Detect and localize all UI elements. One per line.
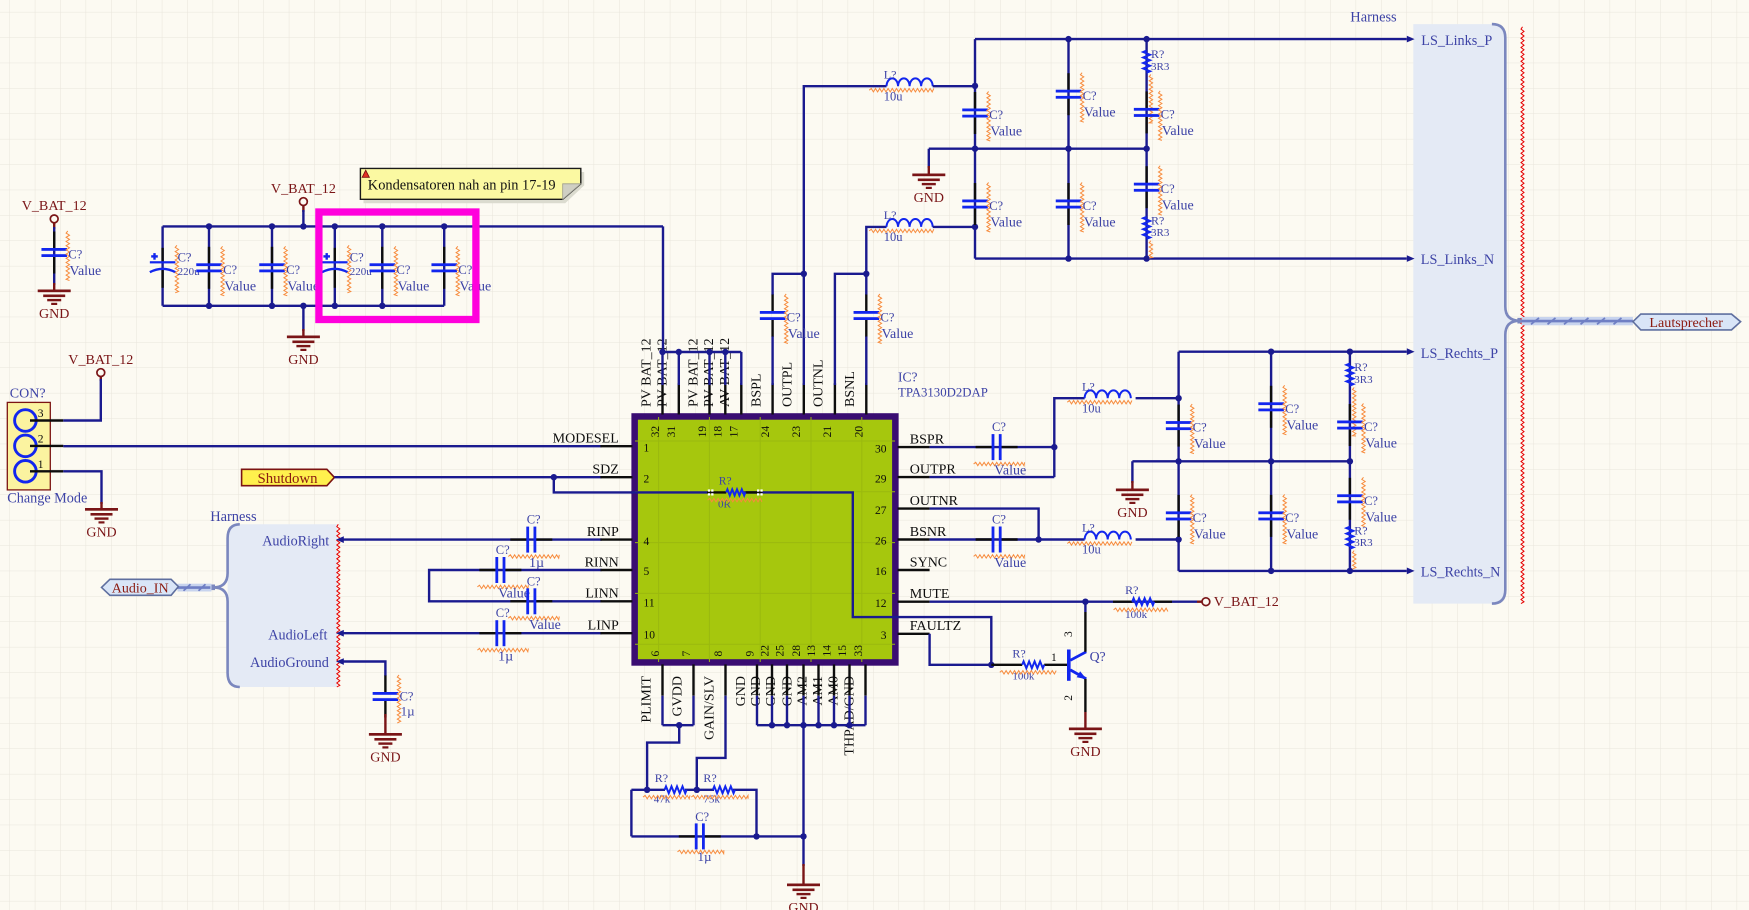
svg-text:LINN: LINN xyxy=(585,587,618,602)
svg-text:GND: GND xyxy=(734,676,749,706)
svg-text:SYNC: SYNC xyxy=(910,555,947,570)
label IC? xyxy=(898,369,918,384)
svg-text:GVDD: GVDD xyxy=(670,676,685,716)
svg-text:FAULTZ: FAULTZ xyxy=(910,619,961,634)
junction dots right filter xyxy=(1175,349,1353,575)
svg-text:L?: L? xyxy=(884,208,897,222)
svg-text:L?: L? xyxy=(1082,379,1095,393)
label C? Value (RF c1 top) xyxy=(1191,404,1226,454)
svg-text:GND: GND xyxy=(86,526,116,541)
wire L to filter (LN) xyxy=(933,226,975,228)
connector pin circle 3 xyxy=(15,410,37,432)
svg-text:1µ: 1µ xyxy=(498,650,513,665)
wire BSNL cap node xyxy=(866,227,886,385)
svg-text:15: 15 xyxy=(837,645,849,657)
svg-text:LS_Rechts_N: LS_Rechts_N xyxy=(1421,565,1501,581)
capacitor C? (LF c2 bot) xyxy=(1056,183,1082,225)
label Harness (right) xyxy=(1350,10,1397,26)
svg-text:C?: C? xyxy=(496,543,510,557)
pin line 3 xyxy=(30,419,63,421)
svg-text:7: 7 xyxy=(681,651,693,657)
label C? Value (BSPR) xyxy=(974,420,1027,479)
capacitor C? (LF c1 top) xyxy=(962,92,988,134)
label R? 3R3 (RF top) xyxy=(1353,360,1374,436)
label C? Value (top-left cap) xyxy=(66,231,101,281)
svg-text:BSPR: BSPR xyxy=(910,433,945,448)
junction dots top pin bus xyxy=(659,349,728,355)
svg-text:C?: C? xyxy=(1083,199,1097,213)
harness entry AudioLeft xyxy=(268,628,344,644)
capacitor C? 1u (RINP) xyxy=(510,527,552,553)
wire FAULTZ xyxy=(930,634,992,665)
svg-text:3: 3 xyxy=(38,408,44,420)
wire pin1 to GND xyxy=(63,471,101,504)
junction OUTPR node xyxy=(1051,444,1057,450)
wire LS_Links_P bus xyxy=(975,38,1407,40)
label R? 3R3 (RF bot) xyxy=(1353,523,1374,569)
inductor L? 10u (right channel P) xyxy=(1085,390,1131,398)
capacitor C? (LF c2 top) xyxy=(1056,73,1082,115)
svg-text:RINP: RINP xyxy=(587,525,619,540)
svg-text:C?: C? xyxy=(1161,107,1175,121)
wire GND stub (right filter) xyxy=(1131,481,1133,489)
IC top pin numbers xyxy=(650,426,866,438)
svg-text:GND: GND xyxy=(370,751,400,766)
svg-text:26: 26 xyxy=(875,536,887,548)
svg-text:V_BAT_12: V_BAT_12 xyxy=(271,181,336,197)
svg-text:22: 22 xyxy=(759,645,771,657)
label R? 0R xyxy=(708,476,762,511)
label R? 3R3 (LF top) xyxy=(1149,47,1170,123)
pin number 3 xyxy=(38,408,44,420)
svg-text:C?: C? xyxy=(68,248,82,262)
svg-text:C?: C? xyxy=(397,263,411,277)
capacitor C? (BSPL bootstrap) xyxy=(760,295,786,337)
svg-text:Change Mode: Change Mode xyxy=(7,491,87,507)
label C? Value (LINN) xyxy=(508,574,561,633)
svg-text:OUTNL: OUTNL xyxy=(812,360,827,407)
svg-text:21: 21 xyxy=(822,426,834,438)
svg-text:32: 32 xyxy=(650,426,662,438)
wire bank cap columns xyxy=(209,226,444,305)
svg-text:Value: Value xyxy=(1194,527,1226,542)
label C? 220u (bank 4) xyxy=(347,245,372,292)
pin line 1 xyxy=(30,470,63,472)
svg-text:LS_Rechts_P: LS_Rechts_P xyxy=(1421,346,1498,362)
capacitor C? 1u (LINP) xyxy=(479,620,521,646)
capacitor C? 1u (PLIMIT) xyxy=(679,823,721,849)
svg-text:30: 30 xyxy=(875,443,887,455)
harness connection block xyxy=(209,585,215,591)
capacitor C? (BSPR bootstrap) xyxy=(976,434,1018,460)
label C? Value (BSNR) xyxy=(974,513,1027,572)
svg-text:BSNR: BSNR xyxy=(910,525,947,540)
harness connector Audio_IN xyxy=(102,579,179,596)
junction PLIMIT/GVDD xyxy=(676,722,682,728)
capacitor C? (bank 2) xyxy=(196,247,222,289)
svg-text:C?: C? xyxy=(1364,420,1378,434)
power port V_BAT_12 (MUTE) xyxy=(1202,594,1279,610)
inductor L? 10u (right channel N) xyxy=(1085,532,1131,540)
svg-text:MUTE: MUTE xyxy=(910,587,950,602)
svg-text:Harness: Harness xyxy=(1350,10,1397,26)
svg-text:R?: R? xyxy=(1151,47,1164,61)
svg-text:C?: C? xyxy=(527,513,541,527)
svg-text:27: 27 xyxy=(875,505,887,517)
wire PLIMIT/GVDD xyxy=(647,696,693,790)
label C? Value (LF c3 top) xyxy=(1159,91,1194,140)
label L? 10u (LP) xyxy=(869,67,934,103)
junction OUTPL node xyxy=(801,271,807,277)
wire L to filter (RN) xyxy=(1136,538,1179,540)
svg-text:C?: C? xyxy=(1193,511,1207,525)
svg-text:L?: L? xyxy=(1082,521,1095,535)
label C? Value (LF c3 bot) xyxy=(1159,166,1194,216)
svg-text:OUTPR: OUTPR xyxy=(910,463,957,478)
wire OUTNR xyxy=(930,509,1039,540)
wire AudioLeft / LINP xyxy=(340,632,602,634)
svg-text:C?: C? xyxy=(1193,421,1207,435)
pin line 2 xyxy=(30,445,63,447)
svg-text:Value: Value xyxy=(287,279,319,294)
svg-text:Value: Value xyxy=(788,327,820,342)
label C? Value (RF c2 bot) xyxy=(1283,494,1318,544)
svg-text:C?: C? xyxy=(496,606,510,620)
svg-text:31: 31 xyxy=(666,426,678,438)
harness cable (Audio_IN) xyxy=(178,584,212,592)
svg-text:Harness: Harness xyxy=(210,509,257,525)
label C? Value (LF c1 bot) xyxy=(987,183,1022,233)
pin 1 label (base) xyxy=(1051,652,1057,664)
svg-text:5: 5 xyxy=(644,566,650,578)
junction OUTNR node xyxy=(1035,536,1041,542)
svg-text:Value: Value xyxy=(882,327,914,342)
svg-text:10u: 10u xyxy=(1082,401,1102,415)
inductor L? 10u (left channel P) xyxy=(887,78,933,86)
svg-text:BSPL: BSPL xyxy=(749,374,764,407)
resistor R? 3R3 (RF bot) xyxy=(1347,527,1354,549)
svg-text:Value: Value xyxy=(529,618,561,633)
ground GND (right filter) xyxy=(1116,489,1149,522)
svg-text:C?: C? xyxy=(1364,494,1378,508)
junction dots left filter xyxy=(972,36,1150,262)
harness cable (Lautsprecher) xyxy=(1522,317,1633,325)
svg-text:Value: Value xyxy=(990,216,1022,231)
junction dots GND bus xyxy=(769,722,853,728)
svg-text:1: 1 xyxy=(644,442,650,454)
svg-text:Value: Value xyxy=(1365,510,1397,525)
pin hotspot marks 0R xyxy=(708,489,763,495)
svg-text:V_BAT_12: V_BAT_12 xyxy=(22,198,87,214)
svg-text:19: 19 xyxy=(697,426,709,438)
svg-text:C?: C? xyxy=(400,690,414,704)
svg-text:Value: Value xyxy=(1286,527,1318,542)
svg-text:R?: R? xyxy=(703,771,716,785)
label C? Value (RF c3 top) xyxy=(1362,404,1397,454)
resistor R? 100k (base) xyxy=(991,661,1067,668)
label C? Value (LF c2 top) xyxy=(1080,73,1115,123)
harness brace (left) xyxy=(213,524,239,687)
svg-text:10u: 10u xyxy=(884,89,904,103)
svg-text:Value: Value xyxy=(1084,216,1116,231)
wire SDZ xyxy=(334,477,707,492)
magenta highlight rectangle xyxy=(319,212,476,320)
capacitor C? (RF c2 bot) xyxy=(1258,495,1284,537)
label R? 100k (base) xyxy=(1000,646,1056,682)
svg-text:13: 13 xyxy=(806,645,818,657)
wire right filter mid bus xyxy=(1132,461,1350,483)
wire BSNR xyxy=(930,538,1085,540)
capacitor C? (BSNR bootstrap) xyxy=(976,527,1018,553)
svg-text:23: 23 xyxy=(791,426,803,438)
label C? Value (bank 2) xyxy=(221,246,256,295)
wire MUTE xyxy=(930,601,1197,603)
label R? 100k (pullup) xyxy=(1114,583,1168,621)
note text xyxy=(368,178,556,194)
svg-text:Q?: Q? xyxy=(1090,649,1106,664)
junction SDZ xyxy=(551,474,557,480)
svg-text:6: 6 xyxy=(650,651,662,657)
resistor R? 0R xyxy=(707,489,763,495)
svg-text:Value: Value xyxy=(498,587,530,602)
svg-text:25: 25 xyxy=(774,645,786,657)
harness connector Lautsprecher xyxy=(1633,314,1741,331)
svg-text:L?: L? xyxy=(884,67,897,81)
harness entry LS_Links_P xyxy=(1407,33,1493,49)
wire L to filter (LP) xyxy=(933,85,975,87)
svg-text:C?: C? xyxy=(881,311,895,325)
capacitor C? (RF c3 top) xyxy=(1337,404,1363,446)
harness area (Audio_IN) xyxy=(228,524,338,687)
junction OUTNL node xyxy=(863,271,869,277)
wire RINN loop xyxy=(429,570,601,601)
ground GND (transistor) xyxy=(1069,728,1102,761)
svg-text:Lautsprecher: Lautsprecher xyxy=(1649,315,1723,331)
label TPA3130D2DAP xyxy=(898,386,988,400)
svg-text:AudioRight: AudioRight xyxy=(262,534,329,550)
label C? 1u (LINP) xyxy=(477,606,528,665)
wire BSPL cap to OUTPL xyxy=(773,274,804,385)
svg-text:R?: R? xyxy=(1125,583,1138,597)
note box (Kondensatoren nah an pin 17-19) xyxy=(360,168,580,199)
svg-text:20: 20 xyxy=(854,426,866,438)
capacitor C? (RINN) xyxy=(479,557,521,583)
harness entry LS_Rechts_N xyxy=(1407,565,1501,581)
connector CON? body xyxy=(7,402,50,490)
svg-text:GND: GND xyxy=(1117,506,1147,521)
label C? Value (bank 6) xyxy=(456,246,491,295)
resistor R? 100k (MUTE pullup) xyxy=(1113,598,1172,605)
capacitor C? 1u (AudioGround) xyxy=(373,676,399,718)
ground GND (left filter) xyxy=(912,174,945,207)
svg-text:10: 10 xyxy=(644,629,656,641)
label C? Value (RF c2 top) xyxy=(1283,385,1318,435)
svg-text:C?: C? xyxy=(992,420,1006,434)
svg-text:3R3: 3R3 xyxy=(1354,374,1373,386)
svg-text:Shutdown: Shutdown xyxy=(257,471,318,487)
wire LS_Rechts_P bus xyxy=(1179,351,1407,353)
label Q? xyxy=(1090,649,1106,664)
svg-text:2: 2 xyxy=(644,473,650,485)
svg-text:14: 14 xyxy=(821,645,833,657)
junction dots cap row xyxy=(753,833,806,839)
svg-text:C?: C? xyxy=(458,263,472,277)
svg-text:LS_Links_P: LS_Links_P xyxy=(1421,33,1492,49)
svg-text:PV BAT_12: PV BAT_12 xyxy=(639,338,654,407)
svg-text:C?: C? xyxy=(350,251,364,265)
svg-text:17: 17 xyxy=(729,426,741,438)
svg-text:100k: 100k xyxy=(1125,609,1148,621)
svg-text:C?: C? xyxy=(1285,511,1299,525)
capacitor C? (bank 6) xyxy=(431,247,457,289)
junction MUTE node xyxy=(1082,599,1088,605)
wire GND stub (connector) xyxy=(100,502,102,508)
wire THPAD GND drop xyxy=(802,725,804,866)
note warning triangle xyxy=(362,170,369,177)
IC bottom pin names xyxy=(639,676,857,756)
svg-text:3R3: 3R3 xyxy=(1151,61,1170,73)
svg-text:C?: C? xyxy=(989,199,1003,213)
wire OUTPL xyxy=(804,86,887,385)
svg-text:R?: R? xyxy=(1354,360,1367,374)
svg-text:C?: C? xyxy=(1285,402,1299,416)
wire C to GND stub xyxy=(53,283,55,290)
wire OUTNL xyxy=(835,274,866,385)
harness entry LS_Links_N xyxy=(1407,252,1494,268)
wire V_BAT_12 bank rail xyxy=(163,210,663,331)
power port V_BAT_12 (top-left) xyxy=(22,198,87,229)
label L? 10u (RP) xyxy=(1067,379,1132,415)
svg-text:BSNL: BSNL xyxy=(843,371,858,407)
svg-text:11: 11 xyxy=(644,598,655,610)
pin number 2 xyxy=(38,434,44,446)
IC right pin numbers xyxy=(875,443,887,642)
pin number 1 xyxy=(38,459,44,471)
svg-text:V_BAT_12: V_BAT_12 xyxy=(68,352,133,368)
label C? 1u (PLIMIT) xyxy=(678,810,724,864)
svg-text:1µ: 1µ xyxy=(401,704,416,719)
label R? 47k xyxy=(643,771,690,805)
svg-text:R?: R? xyxy=(655,771,668,785)
pin 3 label (collector) xyxy=(1063,631,1075,637)
IC top pin names xyxy=(639,338,858,407)
svg-text:C?: C? xyxy=(989,108,1003,122)
svg-text:3: 3 xyxy=(881,630,887,642)
svg-text:3R3: 3R3 xyxy=(1151,227,1170,239)
capacitor C? (LF c3 bot) xyxy=(1134,166,1160,208)
wire right filter columns xyxy=(1179,352,1350,571)
wire pin3 to V_BAT_12 xyxy=(63,379,101,421)
harness connection block (right) xyxy=(1517,318,1523,324)
wire resistor row xyxy=(631,790,803,837)
power port V_BAT_12 (connector) xyxy=(68,352,133,381)
svg-text:33: 33 xyxy=(853,645,865,657)
ground GND (connector) xyxy=(85,508,118,541)
label C? Value (RF c3 bot) xyxy=(1362,477,1397,527)
wire LS_Links_N bus xyxy=(975,257,1407,259)
capacitor C? (BSNL bootstrap) xyxy=(854,295,880,337)
IC body grid lines xyxy=(635,417,895,662)
wire collector xyxy=(1084,602,1086,652)
svg-text:TPA3130D2DAP: TPA3130D2DAP xyxy=(898,386,988,400)
svg-text:R?: R? xyxy=(1354,523,1367,537)
svg-text:Value: Value xyxy=(398,279,430,294)
resistor R? 3R3 (LF top) xyxy=(1143,51,1150,73)
IC top pin stubs xyxy=(663,383,867,414)
svg-text:Value: Value xyxy=(990,125,1022,140)
svg-text:8: 8 xyxy=(713,651,725,657)
svg-text:C?: C? xyxy=(286,263,300,277)
capacitor C? (RF c3 bot) xyxy=(1337,478,1363,520)
svg-text:Audio_IN: Audio_IN xyxy=(112,582,169,597)
svg-text:SDZ: SDZ xyxy=(592,463,618,478)
wire left filter mid bus xyxy=(929,149,1147,168)
svg-text:GND: GND xyxy=(39,307,69,322)
harness brace (right) xyxy=(1492,24,1520,604)
svg-text:C?: C? xyxy=(695,810,709,824)
label C? 1u (RINP) xyxy=(508,513,559,572)
label L? 10u (RN) xyxy=(1067,521,1132,557)
ground GND (cap bank) xyxy=(287,336,320,369)
junction dots resistor row xyxy=(644,787,700,793)
label C? Value (RF c1 bot) xyxy=(1191,494,1226,544)
svg-text:MODESEL: MODESEL xyxy=(553,432,619,447)
capacitor C? (LF c3 top) xyxy=(1134,91,1160,133)
capacitor C? (LF c1 bot) xyxy=(962,183,988,225)
IC right pin names xyxy=(910,433,961,635)
ground GND (AudioGround) xyxy=(369,733,402,766)
label R? 75k xyxy=(691,771,748,805)
resistor R? 75k xyxy=(713,786,735,793)
svg-text:220u: 220u xyxy=(350,266,373,278)
svg-text:C?: C? xyxy=(527,574,541,588)
svg-text:Value: Value xyxy=(1084,106,1116,121)
svg-text:10u: 10u xyxy=(1082,543,1102,557)
ground GND (top-left) xyxy=(38,290,71,323)
svg-text:Value: Value xyxy=(1162,124,1194,139)
svg-text:18: 18 xyxy=(713,426,725,438)
svg-text:Value: Value xyxy=(994,556,1026,571)
power port V_BAT_12 (cap bank) xyxy=(271,181,336,212)
capacitor C? 220u (bank 4, electrolytic) xyxy=(322,248,348,288)
label C? 220u (bank 1) xyxy=(175,245,200,292)
svg-text:OUTNR: OUTNR xyxy=(910,494,959,509)
harness entry LS_Rechts_P xyxy=(1407,346,1498,362)
svg-text:28: 28 xyxy=(791,645,803,657)
ground GND (bottom) xyxy=(787,884,820,910)
label C? 1u (AudioGround) xyxy=(397,675,415,723)
harness entry AudioGround xyxy=(250,655,344,671)
label CON? xyxy=(10,387,46,402)
wire SDZ through 0R to FAULTZ node xyxy=(631,492,991,664)
IC left pin stubs xyxy=(600,446,632,633)
svg-text:1: 1 xyxy=(1051,652,1057,664)
svg-text:10u: 10u xyxy=(884,230,904,244)
capacitor C? (RF c1 top) xyxy=(1166,405,1192,447)
IC left pin numbers xyxy=(644,442,656,641)
svg-text:4: 4 xyxy=(644,536,650,548)
svg-text:29: 29 xyxy=(875,473,887,485)
svg-text:16: 16 xyxy=(875,566,887,578)
capacitor C? 220u (bank 1, electrolytic) xyxy=(150,248,176,288)
svg-text:CON?: CON? xyxy=(10,387,46,402)
resistor R? 47k xyxy=(665,786,687,793)
connector pin circle 1 xyxy=(15,461,37,483)
resistor R? 3R3 (RF top) xyxy=(1347,364,1354,386)
wire BSPR xyxy=(930,446,1055,448)
svg-text:GND: GND xyxy=(914,191,944,206)
harness area (Lautsprecher) xyxy=(1413,24,1519,604)
